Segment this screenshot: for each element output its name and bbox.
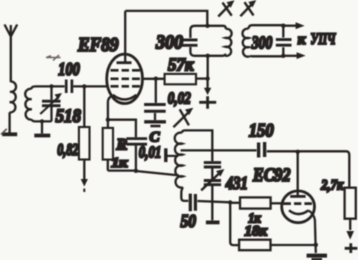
- tube V2 EC92 envelope: [282, 191, 315, 223]
- resistor 0,82: [79, 127, 90, 160]
- faint adjust arrow (antenna): [46, 55, 61, 61]
- wire 18k to cathode: [271, 244, 316, 246]
- svg-text:ЕС92: ЕС92: [252, 165, 291, 186]
- adjust arrow (osc coil core): [173, 108, 193, 128]
- V1 grid g3: [111, 69, 140, 72]
- capacitor C 0.01: [126, 139, 147, 145]
- V1 anode: [117, 61, 132, 64]
- resistor 57k: [165, 74, 196, 84]
- wire osc tap to 150 and 2.7k: [181, 150, 350, 187]
- resistor 18k: [239, 240, 270, 251]
- contact stub bar at osc coil tap: [166, 148, 179, 162]
- B+ arrow (anode supply): [199, 79, 216, 109]
- ground (antenna coil): [1, 129, 17, 135]
- svg-text:к: к: [298, 32, 306, 48]
- output arrow top (to IF amp): [283, 22, 304, 29]
- wire 100 to grid node: [73, 85, 106, 87]
- inductor L1 antenna coil: [9, 81, 16, 112]
- capacitor 0,02: [144, 79, 166, 120]
- svg-text:УПЧ: УПЧ: [311, 31, 336, 48]
- svg-text:300: 300: [155, 32, 183, 54]
- wire grid node down to R18k: [230, 203, 239, 246]
- wire cathode network bottom to osc coil tap: [108, 160, 179, 176]
- junction grid network: [228, 200, 232, 204]
- V1 cathode lead: [108, 95, 113, 127]
- junction cathode node: [106, 118, 110, 122]
- ground (V2 cathode): [307, 256, 327, 260]
- resistor 1k (osc grid): [240, 197, 271, 208]
- IF tank bottom side: [190, 52, 225, 56]
- wire 2.7k to B+: [349, 219, 351, 230]
- output arrow bottom (to IF amp): [283, 52, 305, 59]
- wire osc tank top: [182, 130, 212, 161]
- capacitor 300' across output: [276, 26, 292, 56]
- svg-text:431: 431: [225, 173, 248, 193]
- resistor 2,7k: [345, 188, 356, 219]
- inductor L4 IF secondary coil: [242, 29, 249, 57]
- ground (input tank): [34, 134, 50, 138]
- adjust arrow X2 (IF core): [240, 0, 256, 16]
- junction tank bottom: [206, 54, 210, 58]
- svg-text:1к: 1к: [111, 156, 128, 171]
- wire V1 g2 to R 57k: [144, 78, 165, 80]
- wire tank bottom side: [32, 119, 52, 121]
- wire tank bottom to B+ node: [207, 56, 209, 79]
- wire R1k to V2 grid: [271, 202, 283, 204]
- wire C50 to grid node: [197, 201, 230, 202]
- V2 cathode lead: [309, 211, 316, 253]
- capacitor C 100: [66, 80, 72, 94]
- junction C bottom: [134, 169, 138, 173]
- svg-text:R: R: [116, 137, 128, 154]
- wire 431 to ground: [211, 186, 213, 220]
- variable arrow of C518: [40, 93, 62, 114]
- svg-text:18к: 18к: [245, 224, 268, 240]
- V1 cathode: [113, 95, 137, 100]
- junction (C518 top): [49, 84, 53, 88]
- inductor L5 oscillator coil: [175, 133, 183, 188]
- inductor L2 input tank coil: [25, 89, 32, 120]
- junction V2 anode node: [296, 150, 300, 154]
- V1 grid g1: [111, 85, 140, 88]
- V1 anode lead wire to top: [124, 11, 126, 63]
- IF transformer primary: tank top side: [190, 26, 226, 30]
- wire C 0.01 bottom: [135, 146, 137, 171]
- svg-text:2,7к: 2,7к: [320, 178, 343, 194]
- svg-text:50: 50: [181, 211, 197, 231]
- tube V1 EF89 envelope: [107, 54, 143, 103]
- IF secondary top side: [249, 25, 284, 29]
- IF secondary bottom side: [249, 55, 283, 58]
- capacitor 431 variable: [204, 163, 221, 185]
- junction secondary bottom: [281, 54, 285, 58]
- svg-text:100: 100: [58, 59, 80, 79]
- svg-text:0,02: 0,02: [168, 88, 191, 107]
- wire R 0.82 to AGC: [83, 160, 85, 180]
- svg-text:EF89: EF89: [77, 34, 118, 56]
- svg-text:0,01: 0,01: [139, 143, 162, 162]
- wire 57k right to B+ node: [196, 77, 208, 79]
- capacitor 300 (tank): [182, 30, 198, 52]
- capacitor C518 variable: [42, 86, 61, 121]
- V2 anode bar: [290, 195, 305, 198]
- wire to V2 anode: [297, 152, 299, 196]
- junction (ground tap): [40, 119, 44, 123]
- wire tank top side: [31, 86, 64, 89]
- V1 grid g2: [111, 77, 140, 80]
- inductor L3 IF primary coil: [225, 29, 231, 56]
- capacitor 50: [190, 194, 195, 212]
- wire cathode node to C 0.01: [108, 120, 136, 138]
- wire grid node down to R 0.82: [83, 86, 85, 127]
- wire L1 to ground: [8, 112, 10, 132]
- junction B+ node: [205, 76, 209, 80]
- antenna W1: [5, 25, 18, 83]
- capacitor 150: [259, 142, 265, 158]
- svg-text:300: 300: [251, 33, 272, 53]
- wire osc coil bottom to C50: [181, 187, 188, 201]
- B+ arrow (EC92 anode supply): [345, 231, 358, 253]
- svg-text:150: 150: [249, 121, 274, 142]
- resistor R 1k (cathode): [103, 128, 113, 160]
- junction tank top: [205, 24, 209, 28]
- AGC arrow: [81, 179, 88, 192]
- svg-text:518: 518: [56, 106, 82, 127]
- junction g2 node: [154, 77, 158, 81]
- adjust arrow X1 (IF core): [218, 0, 234, 16]
- ground (431): [206, 220, 220, 224]
- svg-text:0,82: 0,82: [57, 140, 78, 159]
- wire to ground: [41, 121, 43, 133]
- variable arrow of C431: [201, 169, 224, 190]
- svg-text:57к: 57к: [168, 55, 194, 75]
- V2 grid: [283, 202, 312, 205]
- ground (0,02): [144, 122, 166, 126]
- junction cathode/18k: [314, 243, 318, 247]
- V2 cathode: [289, 210, 309, 214]
- wire V1 anode to IF tank: [125, 11, 207, 26]
- junction grid node: [82, 84, 86, 88]
- junction secondary top: [281, 24, 285, 28]
- wire grid node to R1k: [230, 202, 240, 204]
